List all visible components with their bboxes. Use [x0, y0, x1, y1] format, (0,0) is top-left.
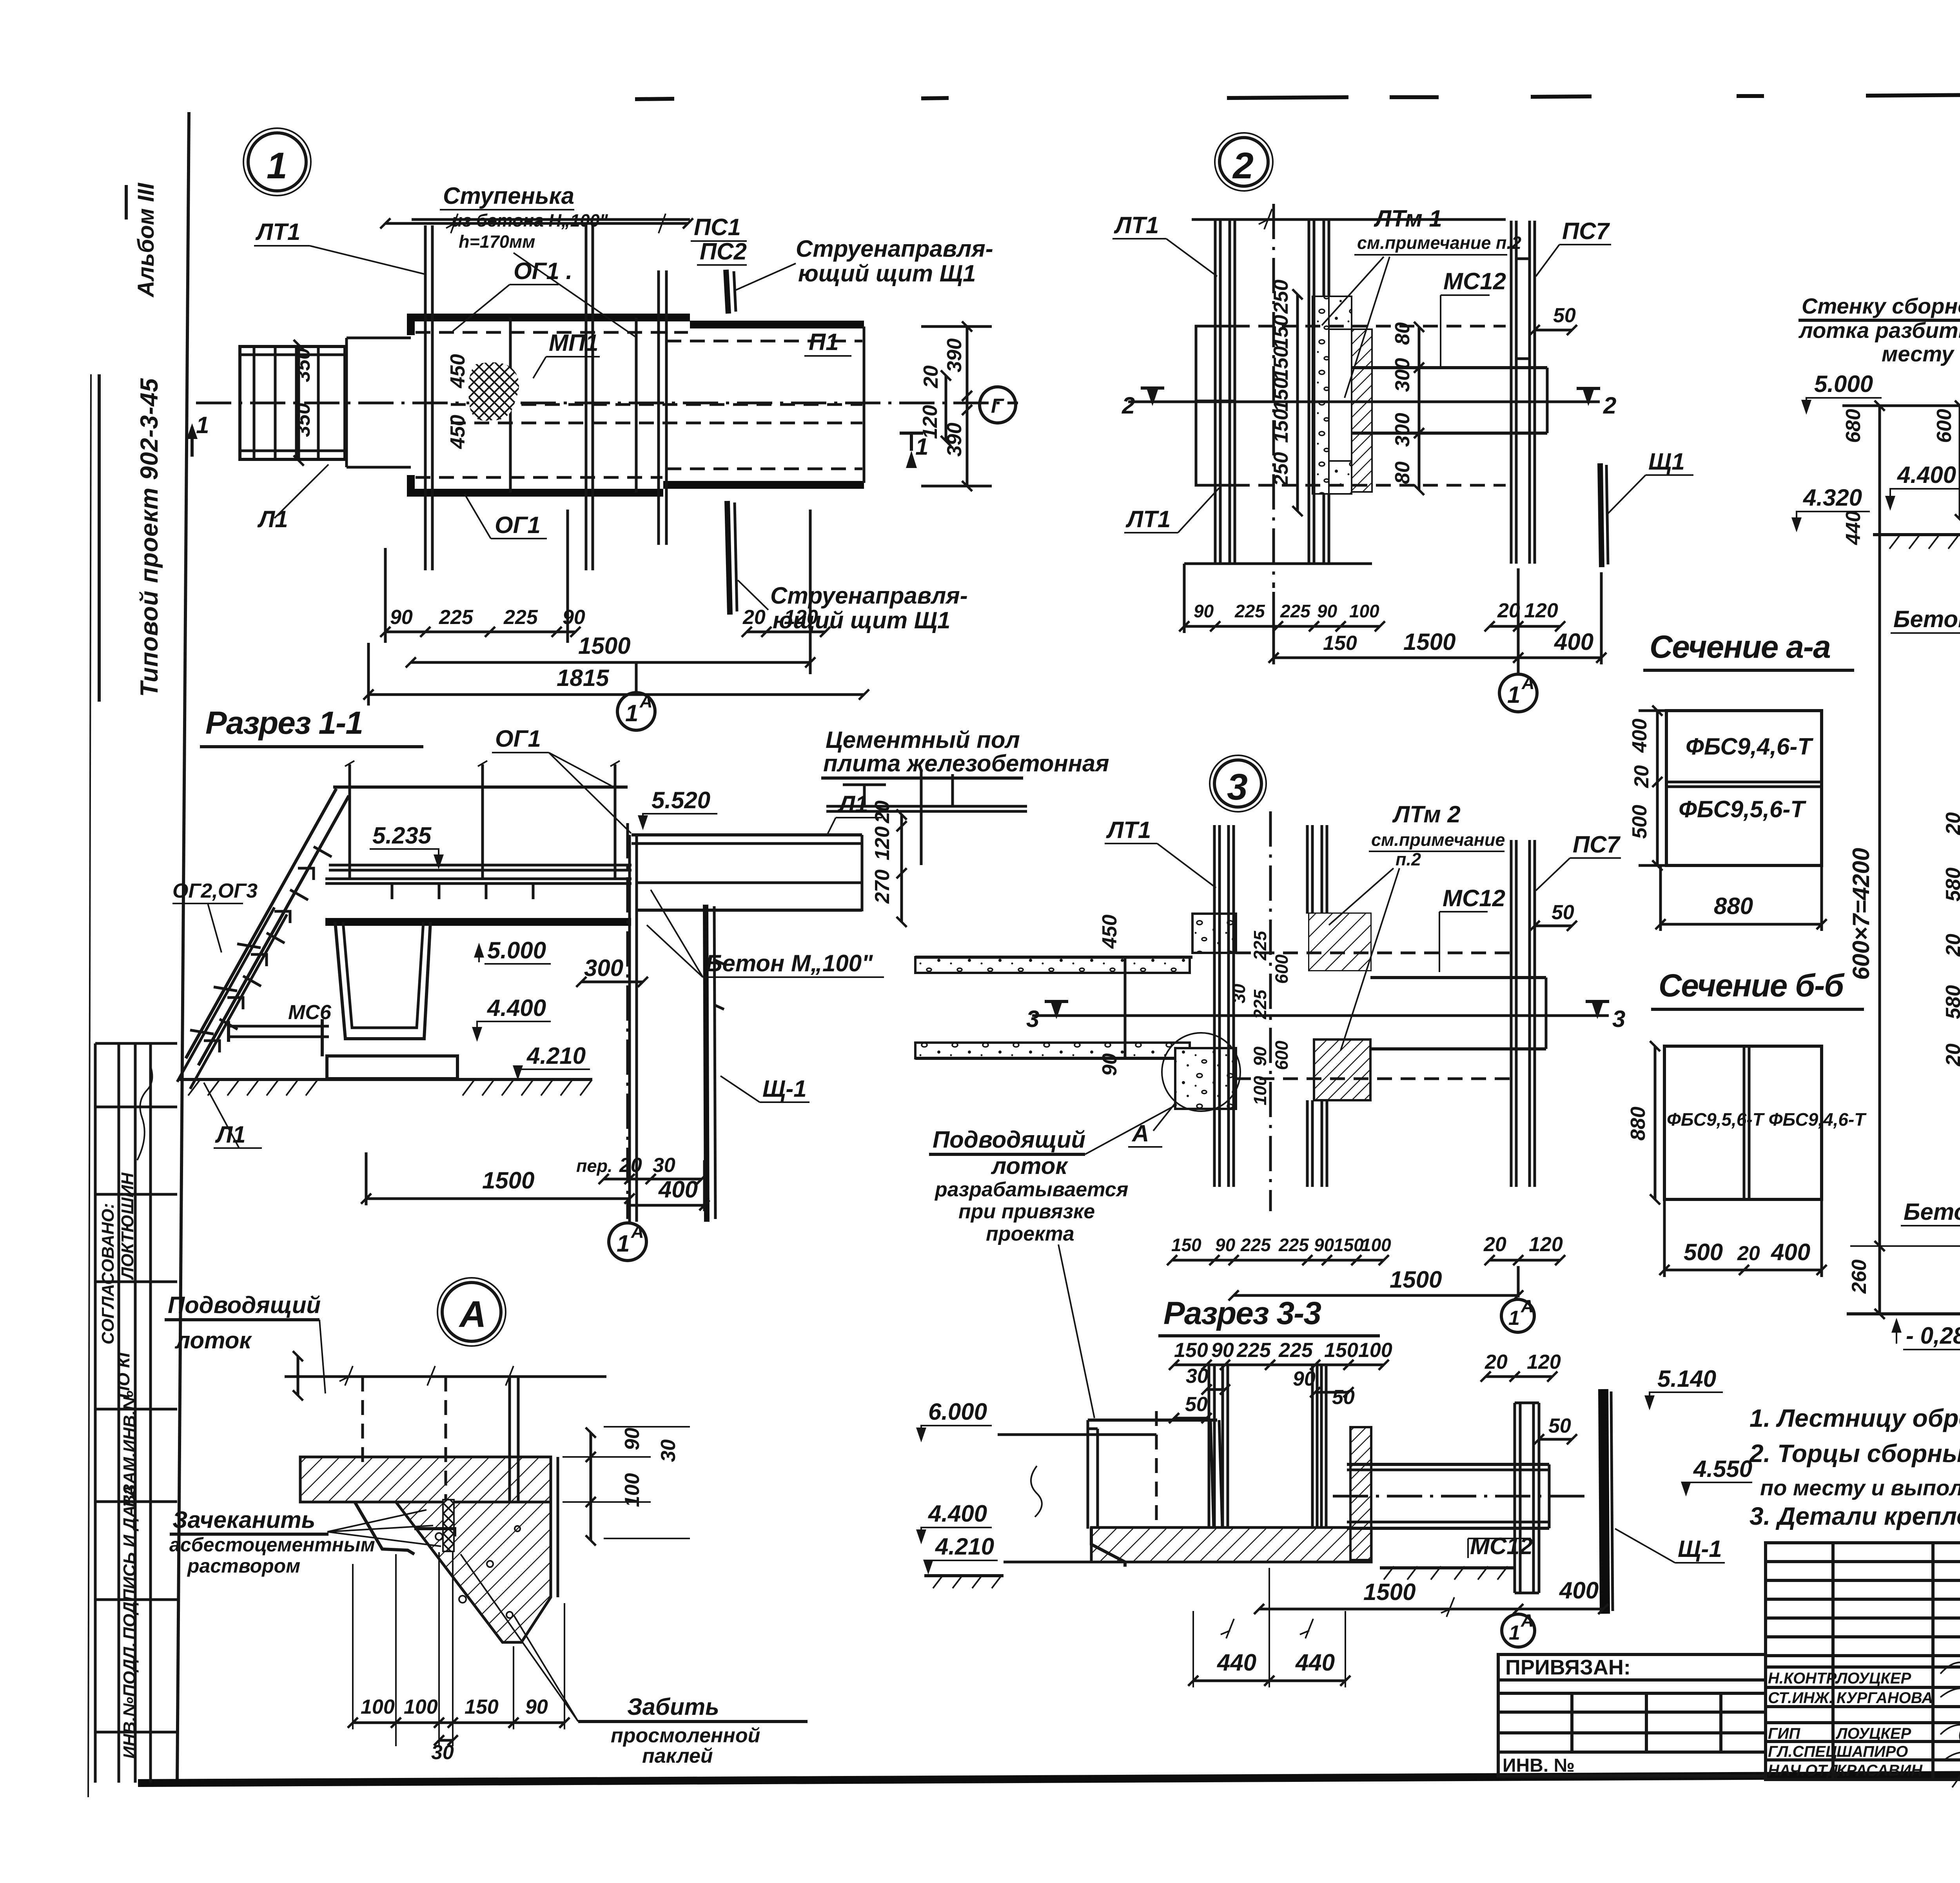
svg-text:2: 2: [1122, 392, 1135, 419]
shield plate Sch-1: [706, 905, 707, 1222]
svg-text:А: А: [631, 1222, 644, 1242]
top dim line with breaks: [385, 222, 688, 225]
right column: [1515, 1403, 1539, 1593]
svg-text:4.400: 4.400: [487, 995, 546, 1021]
svg-text:680: 680: [1842, 409, 1865, 443]
hidden transverse dashed lines: [1235, 325, 1506, 328]
svg-text:ЛТ1: ЛТ1: [255, 219, 300, 245]
sheet outer trim edge: [88, 374, 91, 1797]
top line above ladder: [412, 218, 690, 221]
svg-text:880: 880: [1714, 893, 1753, 919]
approval signature squiggle: [137, 1066, 152, 1160]
svg-text:3: 3: [1612, 1006, 1625, 1032]
ladder alcove walls: [347, 337, 411, 339]
ladder L1 plan: [240, 346, 345, 459]
svg-text:20: 20: [920, 365, 942, 388]
svg-text:КУРГАНОВА: КУРГАНОВА: [1837, 1689, 1933, 1707]
svg-text:1. Лестницу обрезать по мес: 1. Лестницу обрезать по месту.: [1749, 1404, 1960, 1432]
svg-text:ЛТ1: ЛТ1: [1125, 506, 1171, 532]
svg-text:150: 150: [1174, 1339, 1208, 1362]
rotated dims 450 450 350 350: [292, 348, 469, 449]
svg-text:30: 30: [653, 1154, 675, 1177]
PS7 verticals: [1511, 840, 1535, 1187]
svg-text:390: 390: [943, 423, 966, 457]
svg-text:ющий щит Щ1: ющий щит Щ1: [798, 260, 976, 287]
svg-text:4.400: 4.400: [928, 1500, 987, 1527]
monolith hatch strips: [1312, 296, 1329, 494]
svg-text:350: 350: [292, 348, 314, 382]
svg-text:225: 225: [1278, 1339, 1313, 1362]
svg-text:1: 1: [196, 412, 209, 438]
svg-text:Альбом III: Альбом III: [133, 182, 159, 298]
right channel: [1352, 366, 1547, 369]
svg-text:1500: 1500: [482, 1167, 534, 1194]
svg-text:100: 100: [1250, 1076, 1270, 1105]
svg-text:90: 90: [1317, 601, 1338, 621]
section mark 1 in channel: [906, 451, 917, 468]
svg-text:5.000: 5.000: [1814, 371, 1873, 397]
centre trough verticals: [1214, 825, 1327, 1187]
dim 1500: [411, 661, 810, 664]
svg-text:120: 120: [1529, 1233, 1563, 1256]
caulked joint: [443, 1500, 454, 1551]
svg-text:п.2: п.2: [1396, 849, 1421, 869]
svg-text:МС6: МС6: [288, 1001, 332, 1024]
svg-text:Бетон М100: Бетон М100: [1904, 1199, 1960, 1225]
axis horizontal with section marks 2: [1128, 401, 1600, 403]
svg-text:1500: 1500: [1403, 629, 1455, 655]
recess profile: [355, 1502, 414, 1554]
floor band: [1091, 1527, 1371, 1562]
svg-text:А: А: [1521, 1611, 1534, 1631]
svg-text:120: 120: [1527, 1351, 1561, 1373]
heavy shield plate: [1603, 1389, 1605, 1614]
left rotated dim stack: [1296, 294, 1299, 511]
top and bottom edge lines: [1192, 218, 1506, 221]
svg-text:500: 500: [1684, 1239, 1723, 1265]
svg-text:5.140: 5.140: [1657, 1366, 1716, 1392]
ground ticks right: [1384, 1566, 1508, 1580]
svg-text:3. Детали крепления щита Щ-: 3. Детали крепления щита Щ-1 см. на лист…: [1749, 1502, 1960, 1530]
axis vertical: [626, 823, 629, 1219]
svg-text:450: 450: [446, 354, 469, 388]
svg-text:30: 30: [657, 1439, 680, 1462]
svg-text:1: 1: [617, 1230, 630, 1257]
ground hatch: [180, 1078, 592, 1081]
svg-text:5.235: 5.235: [372, 822, 432, 849]
svg-text:5.000: 5.000: [487, 937, 546, 963]
svg-text:ПРИВЯЗАН:: ПРИВЯЗАН:: [1505, 1656, 1631, 1679]
wedge mass: [396, 1502, 551, 1642]
svg-text:ПС7: ПС7: [1573, 831, 1621, 858]
svg-text:90: 90: [563, 606, 585, 629]
svg-text:ЛОКТЮШИН: ЛОКТЮШИН: [118, 1172, 137, 1280]
signature squiggles: [1940, 1656, 1960, 1787]
svg-text:ГЛ.СПЕЦ.: ГЛ.СПЕЦ.: [1768, 1743, 1841, 1760]
svg-text:150: 150: [465, 1696, 499, 1718]
svg-text:225: 225: [1236, 1339, 1271, 1362]
svg-text:450: 450: [446, 415, 469, 449]
svg-text:20: 20: [1485, 1351, 1508, 1373]
right rotated dims 20 120 270: [900, 815, 903, 922]
svg-text:Бетон М„100": Бетон М„100": [706, 950, 873, 976]
svg-text:20: 20: [1942, 1043, 1960, 1067]
right channel: [1370, 976, 1546, 979]
svg-text:100: 100: [1358, 1339, 1392, 1362]
svg-text:Щ-1: Щ-1: [762, 1076, 807, 1102]
svg-text:150: 150: [1324, 1339, 1358, 1362]
svg-text:МС12: МС12: [1443, 885, 1505, 911]
svg-text:месту: месту: [1882, 341, 1955, 366]
svg-text:2: 2: [1232, 145, 1255, 187]
svg-text:80: 80: [1391, 461, 1414, 484]
svg-text:150: 150: [1270, 315, 1292, 349]
lower-left stamp table: [95, 1043, 177, 1783]
svg-text:А: А: [1521, 1296, 1534, 1316]
svg-text:120: 120: [919, 405, 942, 439]
svg-text:Типовой проект 902-3-45: Типовой проект 902-3-45: [136, 378, 163, 697]
svg-text:плита железобетонная: плита железобетонная: [823, 750, 1109, 776]
svg-text:ПС1: ПС1: [694, 214, 741, 240]
pedestal: [327, 1056, 457, 1079]
svg-text:П1: П1: [809, 329, 839, 355]
svg-text:при привязке: при привязке: [958, 1200, 1095, 1223]
svg-text:90: 90: [1211, 1339, 1234, 1362]
svg-text:50: 50: [1548, 1415, 1571, 1437]
svg-text:1: 1: [1507, 682, 1520, 708]
lower shield plate: [727, 501, 730, 615]
svg-text:ШАПИРО: ШАПИРО: [1837, 1743, 1908, 1760]
svg-text:ЛТ1: ЛТ1: [1106, 817, 1151, 843]
pit outline heavy bottom: [411, 475, 864, 493]
svg-text:90: 90: [1250, 1047, 1270, 1066]
dim 90 225 225 90: [385, 631, 575, 633]
svg-text:см.примечание п.2: см.примечание п.2: [1357, 233, 1521, 253]
svg-text:Н.КОНТР.: Н.КОНТР.: [1768, 1670, 1839, 1687]
svg-text:20: 20: [1483, 1233, 1506, 1256]
left channel hatched slabs: [915, 957, 1190, 973]
svg-text:50: 50: [1553, 304, 1576, 327]
channel floor right: [637, 882, 862, 884]
svg-text:3: 3: [1026, 1006, 1039, 1032]
circle 1A: [1499, 674, 1537, 712]
underline of rotated title: [98, 374, 101, 702]
svg-text:90: 90: [1314, 1235, 1334, 1255]
svg-text:А: А: [459, 1293, 488, 1335]
svg-text:440: 440: [1295, 1649, 1335, 1676]
svg-text:Разрез 3-3: Разрез 3-3: [1163, 1295, 1321, 1331]
left tank: [1088, 1419, 1217, 1422]
svg-text:100: 100: [404, 1696, 438, 1718]
centre trough verticals: [1209, 1365, 1326, 1527]
svg-text:400: 400: [1771, 1239, 1810, 1265]
top dim row: [1174, 1339, 1392, 1362]
centre axis vertical: [1269, 811, 1272, 1211]
svg-text:100: 100: [361, 1696, 395, 1718]
svg-text:ющий щит Щ1: ющий щит Щ1: [773, 607, 950, 633]
hatched slab: [300, 1457, 551, 1502]
handrail: [333, 785, 628, 789]
beams top right (cement floor plate): [826, 805, 1027, 808]
svg-text:300: 300: [584, 955, 623, 981]
svg-text:Подводящий: Подводящий: [168, 1292, 321, 1318]
svg-text:2: 2: [1603, 392, 1616, 419]
svg-text:600×7=4200: 600×7=4200: [1848, 848, 1874, 980]
pit outline heavy top: [411, 317, 864, 335]
extension verticals: [1183, 564, 1186, 633]
svg-text:пер.: пер.: [576, 1156, 613, 1176]
svg-text:А: А: [639, 691, 653, 711]
svg-text:Разрез 1-1: Разрез 1-1: [205, 705, 363, 741]
600x7 dim: [1878, 406, 1881, 1246]
svg-text:ОГ1: ОГ1: [495, 726, 541, 752]
cross-hatch blob: [468, 362, 519, 421]
svg-text:50: 50: [1185, 1393, 1208, 1416]
svg-text:1: 1: [1509, 1622, 1520, 1644]
right vertical dim: [590, 1433, 592, 1540]
svg-text:1: 1: [625, 700, 638, 726]
left trough wall verticals: [1215, 219, 1329, 564]
svg-text:300: 300: [1391, 413, 1414, 447]
svg-text:асбестоцементным: асбестоцементным: [169, 1534, 375, 1556]
shield plate Sch1: [1600, 463, 1602, 567]
svg-text:Ступенька: Ступенька: [443, 183, 574, 209]
svg-text:4.400: 4.400: [1897, 462, 1956, 488]
svg-text:МП1: МП1: [549, 330, 599, 356]
privyazan box: [1498, 1654, 1766, 1776]
svg-text:120: 120: [1524, 599, 1558, 622]
svg-text:20: 20: [1737, 1242, 1760, 1265]
right beam channel: [1347, 1463, 1549, 1466]
svg-text:Сечение а-а: Сечение а-а: [1650, 629, 1830, 665]
svg-text:КРАСАВИН: КРАСАВИН: [1837, 1762, 1923, 1779]
wall verticals: [424, 225, 427, 570]
svg-text:90: 90: [621, 1428, 644, 1450]
svg-text:225: 225: [1250, 931, 1270, 961]
svg-text:20: 20: [1497, 599, 1520, 622]
svg-text:250: 250: [1270, 279, 1292, 314]
svg-text:90: 90: [390, 606, 413, 629]
svg-text:600: 600: [1272, 1041, 1292, 1070]
svg-text:4.550: 4.550: [1693, 1456, 1752, 1482]
svg-text:4.210: 4.210: [526, 1043, 586, 1069]
svg-text:3: 3: [1227, 766, 1249, 808]
svg-text:Л1: Л1: [215, 1121, 246, 1148]
svg-text:ОГ1 .: ОГ1 .: [514, 258, 572, 284]
node circle 1: [248, 133, 306, 191]
level line: [1842, 405, 1960, 407]
signatures small table: [1766, 1543, 1960, 1780]
svg-text:Г: Г: [991, 395, 1004, 417]
svg-text:150: 150: [1323, 632, 1357, 655]
svg-text:150: 150: [1334, 1235, 1364, 1255]
right rotated dims 80 300 300 80: [1418, 327, 1421, 490]
svg-text:ОГ2,ОГ3: ОГ2,ОГ3: [172, 880, 258, 902]
stair small brackets: [204, 868, 314, 1052]
svg-text:1500: 1500: [1390, 1266, 1442, 1293]
svg-text:- 0,280: - 0,280: [1906, 1322, 1960, 1349]
svg-text:400: 400: [1559, 1577, 1599, 1604]
svg-text:500: 500: [1628, 805, 1651, 839]
svg-text:Щ-1: Щ-1: [1678, 1536, 1722, 1562]
inner rotated dims: [1229, 931, 1292, 1105]
ground lines: [1873, 533, 1960, 536]
monolith hatch blobs: [1192, 914, 1236, 953]
svg-text:80: 80: [1391, 322, 1414, 345]
svg-text:5.520: 5.520: [652, 787, 710, 813]
svg-text:А: А: [1521, 673, 1535, 693]
upper-right plate of shield: [726, 270, 728, 314]
svg-text:1815: 1815: [557, 665, 610, 691]
svg-text:ФБС9,5,6-Т ФБС9,4,6-Т: ФБС9,5,6-Т ФБС9,4,6-Т: [1667, 1109, 1867, 1130]
svg-text:390: 390: [943, 338, 966, 372]
left protruding box: [1196, 326, 1235, 485]
svg-text:паклей: паклей: [642, 1745, 713, 1767]
svg-text:225: 225: [1234, 601, 1265, 621]
block rectangle: [1666, 711, 1822, 865]
svg-text:225: 225: [1250, 989, 1270, 1020]
svg-text:Л1: Л1: [837, 791, 868, 817]
svg-text:1: 1: [267, 145, 289, 187]
svg-text:Подводящий: Подводящий: [933, 1127, 1085, 1153]
stair rungs: [190, 847, 332, 1034]
dim 20 120: [747, 631, 825, 633]
svg-text:из бетона Н„100": из бетона Н„100": [452, 210, 608, 230]
svg-text:лоток: лоток: [174, 1327, 252, 1353]
svg-text:20: 20: [1942, 934, 1960, 957]
svg-text:1500: 1500: [1363, 1579, 1416, 1605]
svg-text:225: 225: [503, 606, 538, 629]
svg-text:225: 225: [439, 606, 474, 629]
svg-text:100: 100: [1349, 601, 1379, 621]
PS7 verticals: [1511, 221, 1535, 564]
svg-text:СОГЛАСОВАНО:: СОГЛАСОВАНО:: [98, 1203, 118, 1344]
section mark 1 at left frame: [191, 427, 194, 457]
left dim: [1654, 1046, 1657, 1199]
svg-text:30: 30: [431, 1741, 454, 1764]
svg-text:30: 30: [1229, 984, 1249, 1003]
svg-text:Зачеканить: Зачеканить: [172, 1507, 315, 1533]
svg-text:440: 440: [1842, 511, 1865, 545]
svg-text:Струенаправля-: Струенаправля-: [770, 582, 968, 609]
stair stringers: [186, 789, 336, 1058]
bottom dims: [1171, 1233, 1563, 1256]
circle 1A: [609, 1223, 646, 1261]
svg-text:880: 880: [1627, 1107, 1650, 1141]
right top slab: [632, 833, 862, 836]
svg-text:НАЧ.ОТД: НАЧ.ОТД: [1768, 1762, 1838, 1779]
hidden dashes: [1236, 952, 1511, 954]
circle 1A bottom: [617, 693, 655, 730]
pit inner dashed faces: [416, 331, 688, 334]
svg-text:20: 20: [1942, 812, 1960, 835]
svg-text:ПОДПИСЬ И ДАТА: ПОДПИСЬ И ДАТА: [120, 1485, 139, 1640]
svg-text:90: 90: [1215, 1235, 1236, 1255]
svg-text:225: 225: [1280, 601, 1311, 621]
svg-text:МС12: МС12: [1470, 1533, 1533, 1559]
svg-text:120: 120: [871, 826, 894, 860]
svg-text:260: 260: [1848, 1259, 1871, 1294]
svg-text:225: 225: [1240, 1235, 1271, 1255]
svg-text:Струенаправля-: Струенаправля-: [796, 236, 993, 262]
svg-text:1500: 1500: [578, 633, 630, 659]
level 5.000: [474, 943, 484, 958]
svg-text:600: 600: [1933, 409, 1956, 443]
svg-text:Щ1: Щ1: [1648, 448, 1685, 475]
centre axis vertical: [1272, 204, 1275, 588]
svg-text:90: 90: [525, 1696, 548, 1718]
svg-text:по месту и выполнить монол: по месту и выполнить монолитные участки …: [1760, 1475, 1960, 1500]
top slab line with breaks: [285, 1375, 606, 1378]
svg-text:ЛТ1: ЛТ1: [1114, 212, 1159, 238]
svg-text:ГИП: ГИП: [1768, 1725, 1800, 1742]
svg-text:см.примечание: см.примечание: [1371, 830, 1505, 850]
svg-text:350: 350: [292, 403, 314, 437]
svg-text:150: 150: [1270, 346, 1292, 380]
svg-text:150: 150: [1270, 377, 1292, 412]
svg-text:6.000: 6.000: [928, 1399, 987, 1425]
channel water lines: [451, 403, 862, 406]
svg-text:ПС7: ПС7: [1562, 218, 1610, 244]
svg-text:Цементный пол: Цементный пол: [826, 727, 1020, 753]
right hatched wall: [1350, 1427, 1371, 1560]
deck slabs: [329, 864, 632, 867]
svg-text:4.210: 4.210: [935, 1533, 994, 1560]
svg-text:ЛТм 2: ЛТм 2: [1392, 801, 1461, 827]
top border (broken scan dashes): [635, 93, 1960, 112]
svg-text:разрабатывается: разрабатывается: [934, 1178, 1128, 1201]
svg-text:50: 50: [1332, 1386, 1355, 1409]
svg-text:ИНВ.№ПОДЛ.: ИНВ.№ПОДЛ.: [120, 1642, 139, 1759]
axis + section marks 3: [1032, 1014, 1609, 1017]
svg-text:20: 20: [742, 606, 766, 629]
svg-text:1: 1: [1508, 1307, 1520, 1330]
svg-text:лоток: лоток: [991, 1153, 1068, 1179]
svg-text:90: 90: [1098, 1053, 1121, 1076]
embedded angle: [414, 1529, 455, 1537]
left dim: [1656, 711, 1659, 865]
right vertical dim: [966, 327, 969, 486]
right wall: [628, 835, 631, 1222]
svg-text:50: 50: [1552, 901, 1574, 924]
svg-text:440: 440: [1217, 1649, 1256, 1676]
svg-text:ОГ1: ОГ1: [495, 512, 541, 538]
verticals: [361, 1377, 364, 1462]
svg-text:Бетон М100: Бетон М100: [1893, 606, 1960, 632]
svg-text:400: 400: [1554, 629, 1593, 655]
svg-text:450: 450: [1098, 914, 1121, 949]
svg-text:225: 225: [1278, 1235, 1309, 1255]
svg-text:просмоленной: просмоленной: [611, 1724, 760, 1747]
svg-text:100: 100: [1361, 1235, 1391, 1255]
centre axis: [196, 402, 1018, 405]
svg-text:580: 580: [1942, 867, 1960, 902]
svg-text:400: 400: [658, 1176, 698, 1203]
svg-text:ИНВ. №: ИНВ. №: [1503, 1755, 1575, 1776]
svg-text:ЛТм 1: ЛТм 1: [1374, 205, 1442, 232]
bottom extension + dim rows: [384, 548, 387, 643]
svg-text:150: 150: [1171, 1235, 1201, 1255]
svg-text:400: 400: [1628, 718, 1651, 753]
svg-text:ЛОУЦКЕР: ЛОУЦКЕР: [1835, 1670, 1911, 1687]
svg-text:СТ.ИНЖ.: СТ.ИНЖ.: [1768, 1689, 1833, 1707]
dims left of trough: [1959, 406, 1960, 519]
svg-text:580: 580: [1942, 985, 1960, 1019]
svg-text:проекта: проекта: [986, 1223, 1074, 1245]
MS6 beam: [229, 1025, 329, 1028]
svg-text:ПС2: ПС2: [700, 238, 747, 265]
tank trapezoid: [335, 922, 430, 1039]
